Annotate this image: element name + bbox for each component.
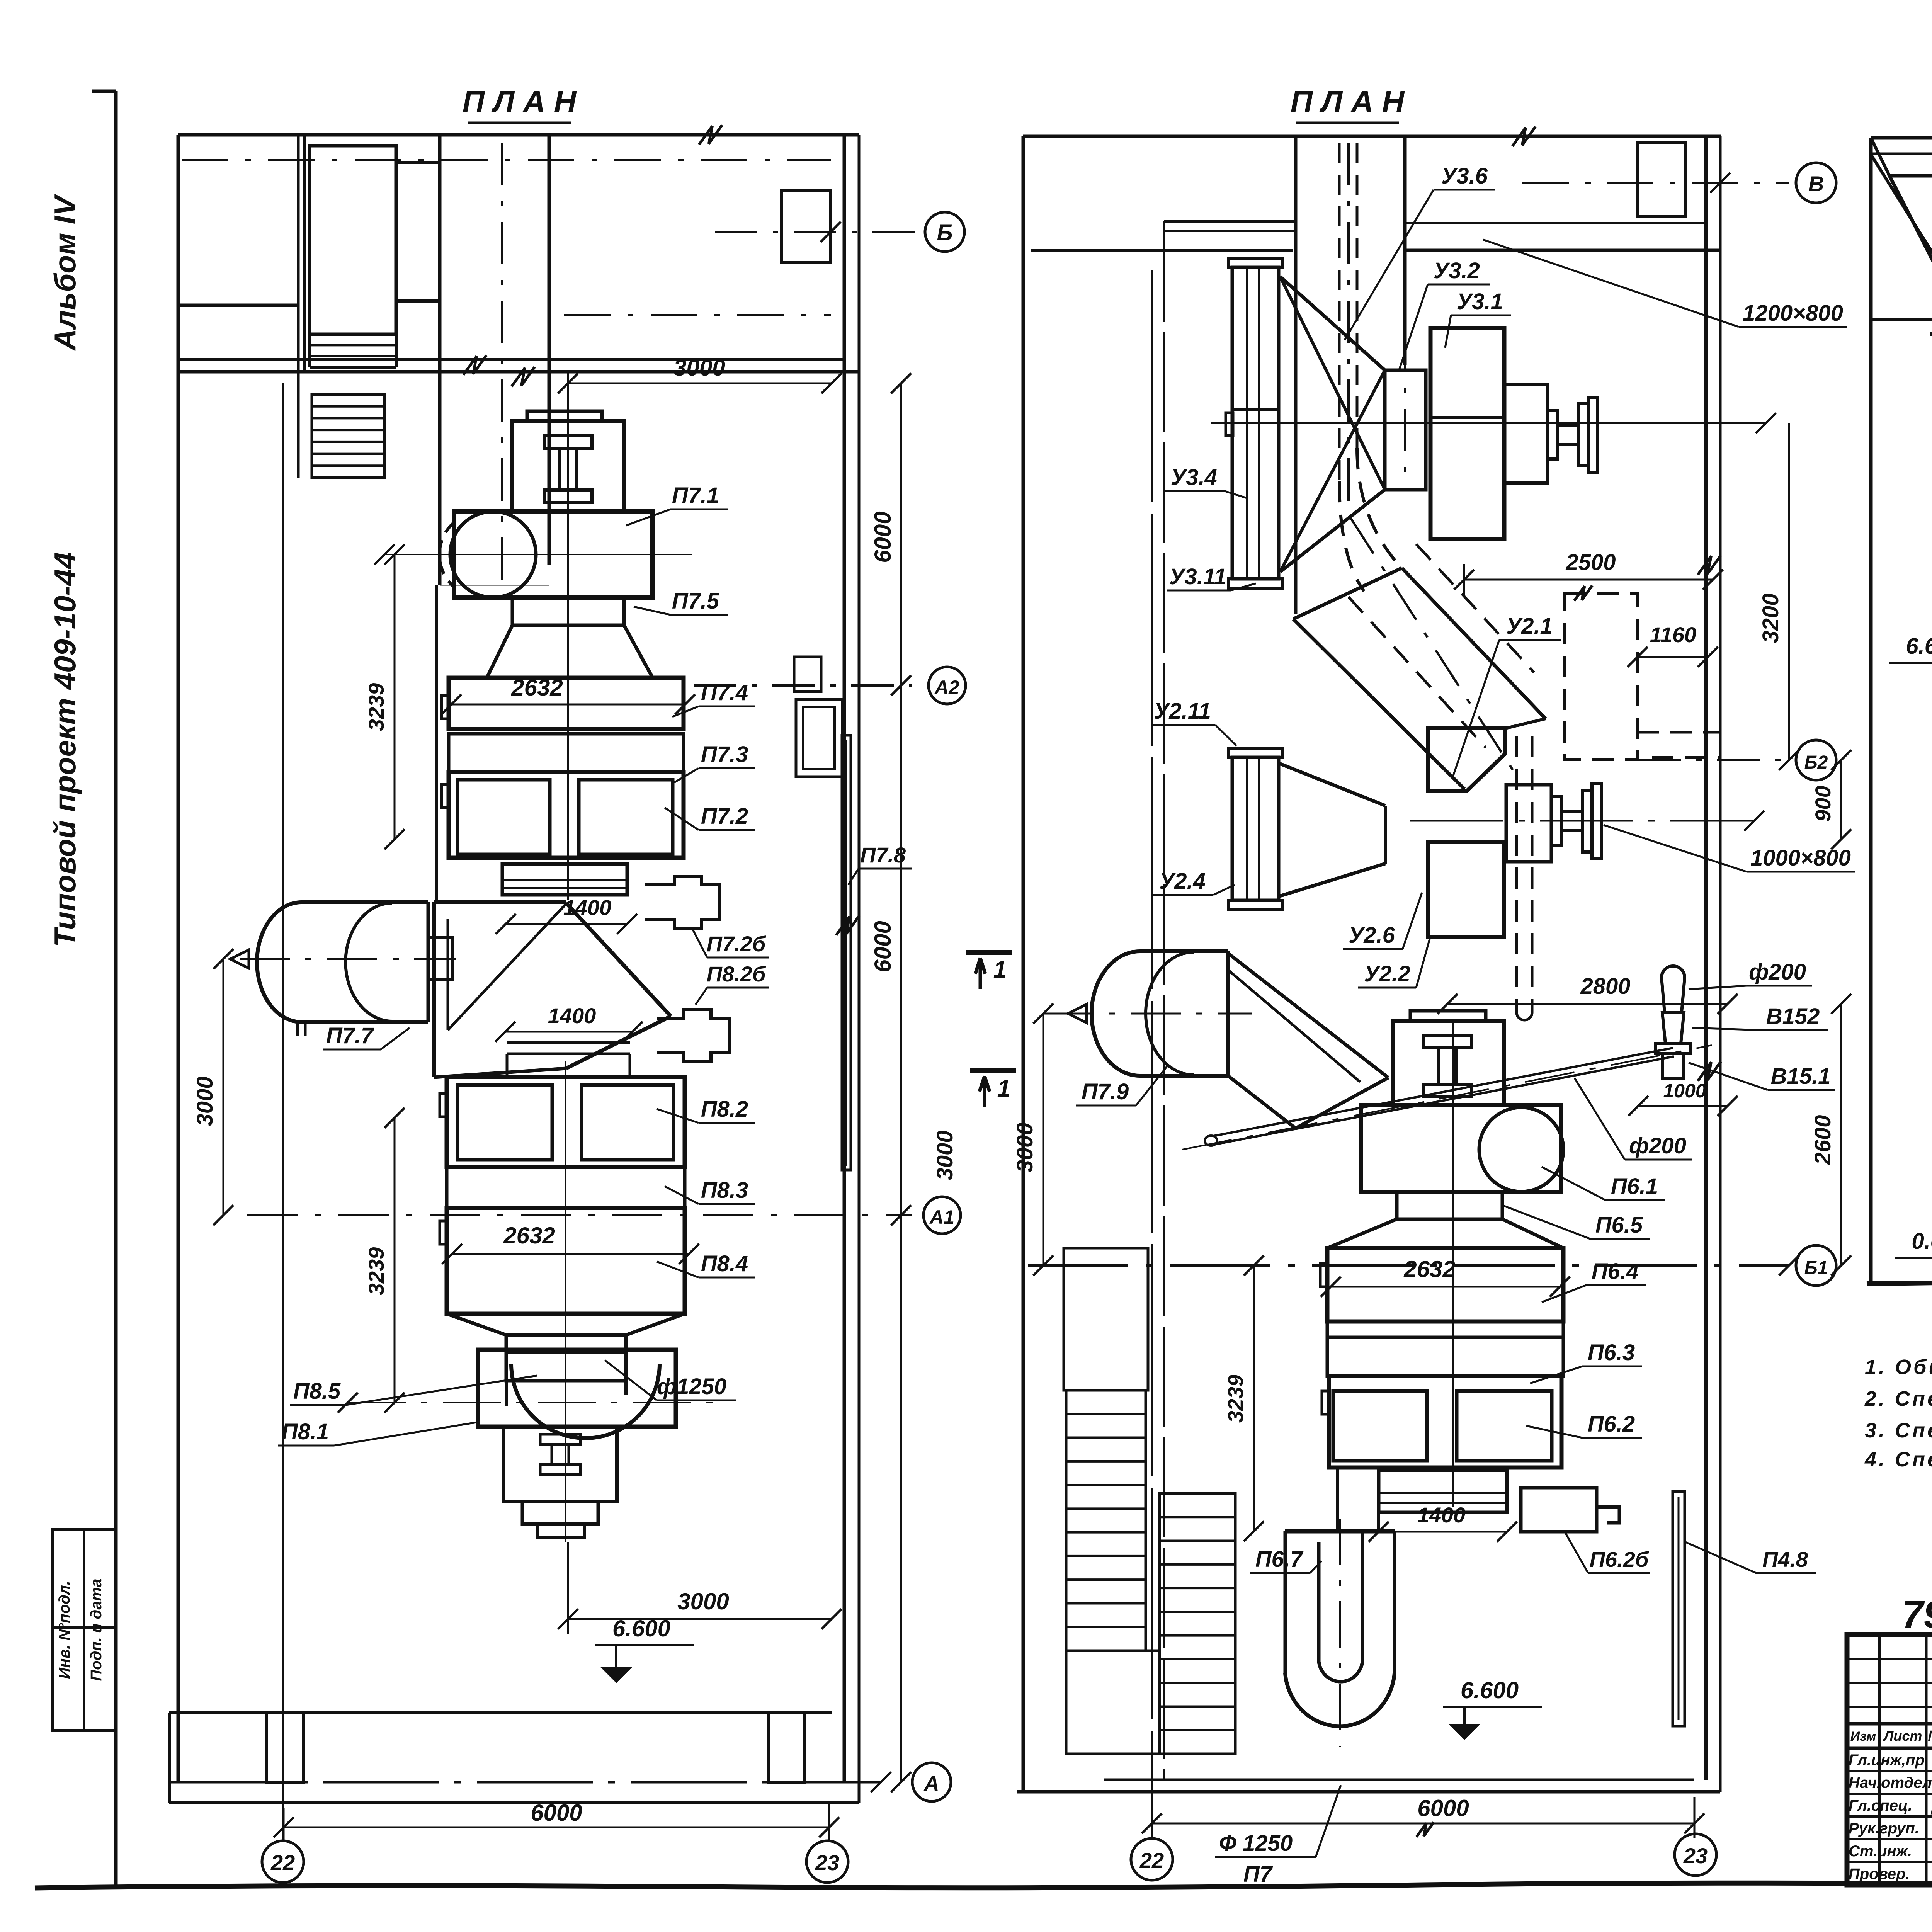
dim 3000 vertical right lower — [900, 1215, 902, 1782]
У2.4 grille caps — [1229, 748, 1282, 757]
svg-text:В15.1: В15.1 — [1771, 1064, 1831, 1089]
У3.4 grille body — [1232, 267, 1279, 579]
shaft verticals — [438, 135, 442, 585]
svg-text:П7.5: П7.5 — [672, 588, 719, 614]
svg-text:2500: 2500 — [1565, 550, 1616, 575]
dim 6000 vertical right (upper bay) — [900, 383, 902, 685]
П8 stack centerline — [565, 1061, 566, 1542]
svg-text:П8.3: П8.3 — [701, 1178, 748, 1203]
svg-text:2632: 2632 — [511, 675, 563, 701]
dashed return duct — [1515, 736, 1518, 1012]
П7.2 bottom neck with flange lines — [502, 864, 627, 895]
svg-text:22: 22 — [270, 1850, 295, 1875]
svg-text:1400: 1400 — [1417, 1503, 1466, 1527]
landing — [1066, 1651, 1160, 1754]
svg-text:Типовой проект 409-10-44: Типовой проект 409-10-44 — [48, 552, 82, 947]
grid line 22 left plan — [282, 383, 284, 1841]
svg-text:0.000: 0.000 — [1912, 1229, 1932, 1254]
section left wall — [1869, 138, 1873, 1284]
П6.7 drop from П6.2 — [1377, 1512, 1380, 1531]
svg-text:П6.3: П6.3 — [1588, 1340, 1635, 1365]
svg-text:3000: 3000 — [673, 355, 725, 381]
ground line — [1867, 1282, 1932, 1289]
svg-text:Дорфман: Дорфман — [1930, 1794, 1932, 1815]
svg-text:П7.4: П7.4 — [701, 680, 748, 705]
left plan horizontal double wall — [178, 358, 844, 361]
middle plan right wall pair — [1704, 136, 1708, 1780]
axis А line (wall bottom) — [169, 1781, 881, 1784]
У2 motor right — [1506, 785, 1551, 862]
svg-text:П8.5: П8.5 — [293, 1379, 341, 1404]
axis В — [1522, 182, 1789, 184]
svg-text:6000: 6000 — [870, 511, 896, 563]
svg-text:1200×800: 1200×800 — [1743, 301, 1843, 326]
dim 1000 — [1638, 1105, 1728, 1107]
shaft centerline dash-dot — [501, 143, 503, 591]
fan П7.1 scroll box — [454, 512, 653, 598]
svg-text:А1: А1 — [929, 1206, 954, 1228]
dim 6000 vertical right (А2-А1) — [900, 685, 902, 1215]
svg-text:23: 23 — [815, 1850, 839, 1875]
svg-text:П7: П7 — [1243, 1862, 1273, 1887]
bottom wall band left plan — [169, 1711, 832, 1714]
svg-text:3200: 3200 — [1758, 593, 1783, 643]
svg-text:3239: 3239 — [364, 683, 388, 731]
trapezoid below П8.4 — [447, 1314, 685, 1335]
svg-text:3. Спецификацию установок: 3. Спецификацию установок П7, П8, В15 см… — [1865, 1419, 1932, 1442]
roof truss lower chord — [1871, 318, 1932, 321]
dim 1400 middle — [1379, 1531, 1507, 1533]
svg-text:1000: 1000 — [1663, 1080, 1706, 1102]
svg-text:2632: 2632 — [503, 1223, 555, 1248]
stair block top — [310, 146, 396, 334]
П7.5 transition trapezoid — [487, 625, 653, 678]
svg-text:3000: 3000 — [932, 1130, 957, 1180]
П8.2 box with two cells — [447, 1077, 685, 1167]
П7.2 box with two cells — [449, 772, 684, 858]
svg-text:Б: Б — [937, 220, 952, 245]
svg-text:У2.11: У2.11 — [1154, 699, 1211, 724]
motor I-beam detail — [544, 436, 592, 448]
tank centerline + arrow — [240, 958, 456, 960]
svg-text:У3.11: У3.11 — [1169, 564, 1226, 589]
svg-text:Б2: Б2 — [1804, 752, 1828, 773]
svg-text:6.600: 6.600 — [612, 1616, 670, 1641]
dim 3000 top — [568, 383, 832, 384]
axis Б1 — [1028, 1264, 1789, 1267]
dim 2500 — [1464, 579, 1713, 581]
grid line 22 middle — [1151, 270, 1153, 1838]
left plan right wall pair — [843, 135, 846, 1782]
svg-text:900: 900 — [1811, 786, 1835, 821]
П7.4 box — [449, 678, 684, 729]
svg-text:У2.2: У2.2 — [1364, 961, 1410, 986]
left plan top wall — [178, 133, 859, 137]
svg-text:Лист: Лист — [1883, 1728, 1922, 1744]
left plan dash-dot axis top bay — [182, 159, 831, 161]
dash-dot axis in top bay lower — [564, 314, 831, 316]
svg-text:П7.9: П7.9 — [1082, 1079, 1129, 1104]
dim 6000 bottom middle — [1152, 1823, 1694, 1825]
section mark 1 upper — [966, 950, 1012, 955]
small rect on axis В — [1637, 143, 1685, 216]
svg-text:П Л А Н: П Л А Н — [1291, 84, 1405, 119]
dim 1400 diagonal area — [505, 1031, 633, 1033]
section top chord — [1871, 136, 1932, 140]
svg-text:1: 1 — [993, 956, 1007, 983]
tank П7.7 — [301, 902, 428, 1022]
svg-text:Изм: Изм — [1850, 1729, 1876, 1744]
motor I-beam detail П8.1 — [540, 1434, 580, 1444]
svg-text:У3.6: У3.6 — [1441, 163, 1488, 189]
svg-text:Ф 1250: Ф 1250 — [1219, 1831, 1293, 1856]
svg-text:6.600: 6.600 — [1906, 634, 1932, 659]
tank legs — [296, 1022, 299, 1036]
axis Б2 — [1638, 759, 1789, 761]
bottom wall middle plan — [1104, 1779, 1694, 1781]
svg-text:П4.8: П4.8 — [1762, 1547, 1808, 1571]
truss diagonals — [1871, 155, 1932, 317]
fan П8.1 scroll — [478, 1350, 676, 1427]
dim 2600 vertical — [1840, 1004, 1842, 1265]
П8.4 box — [447, 1208, 685, 1314]
dim 1160 — [1638, 656, 1708, 658]
thin pipe ф200 diagonal — [1213, 1048, 1673, 1136]
У2 machinery axis y=2124 — [1410, 820, 1754, 822]
left side tabs of boxes — [442, 696, 449, 719]
svg-text:А: А — [923, 1772, 939, 1795]
У3.4 grille caps — [1229, 258, 1282, 267]
shaft dashed duct lines — [1338, 143, 1341, 481]
svg-text:А2: А2 — [934, 677, 959, 698]
svg-text:N°документа: N°документа — [1928, 1728, 1932, 1744]
valve B152 — [1662, 966, 1685, 1012]
axis Б dash-dot — [715, 231, 925, 233]
svg-text:6000: 6000 — [870, 921, 896, 972]
svg-text:В152: В152 — [1766, 1004, 1820, 1029]
section mark 1 lower left — [970, 1068, 1016, 1073]
fan unit П7.1 motor flange — [527, 411, 602, 421]
П6.3 band — [1327, 1321, 1563, 1337]
П7.5 neck — [512, 598, 624, 625]
П6.2 bottom neck — [1379, 1470, 1507, 1512]
svg-text:П6.7: П6.7 — [1255, 1547, 1304, 1572]
svg-text:4. Спецификацию установок У: 4. Спецификацию установок У2, У3 . см. О… — [1864, 1448, 1932, 1471]
П7 stack centerline — [567, 398, 569, 900]
П6 motor flange — [1410, 1011, 1486, 1021]
fan П6.1 scroll box — [1361, 1105, 1561, 1192]
svg-text:П6.2: П6.2 — [1588, 1412, 1635, 1437]
svg-text:2600: 2600 — [1810, 1115, 1835, 1165]
svg-text:1400: 1400 — [548, 1003, 596, 1028]
svg-text:1000×800: 1000×800 — [1750, 845, 1851, 871]
svg-text:Альбом IV: Альбом IV — [48, 194, 82, 351]
axis А1 — [247, 1214, 912, 1216]
svg-text:П Л А Н: П Л А Н — [463, 84, 577, 119]
svg-text:У3.4: У3.4 — [1171, 465, 1217, 490]
П7.8 narrow duct in wall — [842, 735, 851, 1170]
grid circles 22 23 middle plan — [1131, 1838, 1173, 1880]
П4.8 narrow duct — [1673, 1492, 1685, 1726]
svg-text:П7.2б: П7.2б — [707, 932, 766, 956]
svg-text:7922/8: 7922/8 — [1902, 1593, 1932, 1636]
У2.4 grille body — [1232, 757, 1279, 900]
grille mid tab — [1226, 413, 1233, 435]
wall piers — [266, 1713, 303, 1782]
wall pair x=772 — [297, 135, 300, 372]
У3 axis thin — [1211, 422, 1766, 424]
svg-text:ф1250: ф1250 — [657, 1374, 726, 1399]
svg-text:Подп. и дата: Подп. и дата — [88, 1579, 105, 1681]
svg-text:2632: 2632 — [1403, 1256, 1455, 1282]
svg-text:П6.5: П6.5 — [1595, 1213, 1643, 1238]
dim 6000 bottom — [284, 1827, 829, 1828]
П7.9 centerline + arrow — [1043, 1013, 1252, 1015]
П7.3 band — [449, 734, 684, 772]
dim 3200 vertical — [1788, 423, 1790, 760]
axis А2 — [694, 684, 912, 687]
small rect on axis Б — [782, 191, 830, 263]
svg-text:П8.2б: П8.2б — [707, 962, 766, 986]
svg-text:6000: 6000 — [531, 1800, 582, 1826]
П6 stack centerline — [1452, 1020, 1454, 1507]
svg-text:Ст.инж.: Ст.инж. — [1849, 1843, 1912, 1860]
svg-text:Гл.спец.: Гл.спец. — [1849, 1797, 1912, 1814]
middle plan top wall — [1023, 135, 1721, 138]
svg-text:ф200: ф200 — [1749, 959, 1806, 985]
vertical duct casing around П7 lower — [435, 585, 438, 904]
fan axis thin line — [384, 554, 692, 555]
title block outer — [1847, 1634, 1932, 1885]
svg-text:1160: 1160 — [1650, 622, 1696, 647]
svg-text:Нач.отдела: Нач.отдела — [1849, 1774, 1932, 1791]
П8.1 motor box — [503, 1427, 617, 1502]
У2.1 dashed riser — [1565, 594, 1638, 759]
sheet frame bottom border — [35, 1883, 1932, 1888]
У2.1 junction box — [1428, 728, 1505, 791]
П6.2 box with cells — [1329, 1376, 1561, 1468]
svg-text:1: 1 — [997, 1075, 1010, 1102]
svg-text:3239: 3239 — [1223, 1375, 1248, 1423]
middle plan shaft verticals — [1294, 136, 1298, 614]
fan У3.1 — [1430, 328, 1504, 539]
П7.2б zigzag duct piece — [645, 876, 719, 928]
У2 vertical duct under У2.1 — [1428, 842, 1504, 937]
У2.4 funnel — [1279, 763, 1385, 806]
grid circle А — [912, 1763, 951, 1801]
middle plan left wall — [1022, 136, 1025, 1792]
svg-text:ф200: ф200 — [1629, 1133, 1686, 1158]
top hopper in section — [1889, 176, 1932, 270]
centerline U-duct — [1339, 1519, 1341, 1747]
svg-text:П7.8: П7.8 — [860, 843, 906, 867]
У3.4 funnel — [1280, 277, 1385, 370]
fan П8.1 centerline — [348, 1402, 715, 1403]
svg-text:У2.6: У2.6 — [1349, 923, 1395, 948]
dim 3000 vertical left — [223, 959, 224, 1215]
svg-text:3000: 3000 — [1012, 1122, 1037, 1172]
dim 900 vertical — [1840, 760, 1842, 839]
dim 2800 — [1447, 1003, 1728, 1005]
lower wall outer line — [169, 1801, 859, 1804]
svg-text:П7.2: П7.2 — [701, 804, 748, 829]
svg-text:П8.1: П8.1 — [282, 1419, 329, 1444]
П6.2б zigzag piece — [1521, 1488, 1619, 1532]
elbow dash-dot centerline — [1350, 518, 1515, 773]
steps small rects right of П7.4 — [794, 657, 821, 692]
fan П6.1 circle — [1479, 1107, 1563, 1192]
svg-text:У3.1: У3.1 — [1457, 289, 1503, 314]
hopper funnel to duct — [1228, 953, 1388, 1128]
П8.5 neck — [506, 1335, 626, 1381]
svg-text:У3.2: У3.2 — [1434, 258, 1480, 283]
П8.2б zigzag piece — [657, 1010, 729, 1061]
П6.5 neck — [1397, 1192, 1502, 1219]
У3 duct dash-dot centerline — [1404, 251, 1406, 491]
svg-text:В: В — [1808, 172, 1824, 196]
П6.5 trapezoid — [1327, 1219, 1563, 1248]
sheet frame left border — [114, 91, 118, 1886]
dim 1400 (П7) — [506, 923, 627, 925]
diagonal duct П8.2б transition diamond — [432, 902, 436, 1077]
title block left signature table — [1878, 1634, 1881, 1885]
dashed duct to wall — [1638, 731, 1720, 734]
svg-text:6.600: 6.600 — [1461, 1677, 1519, 1703]
svg-text:П8.2: П8.2 — [701, 1097, 748, 1122]
svg-text:Рук.груп.: Рук.груп. — [1849, 1820, 1919, 1837]
П6.4 box — [1327, 1248, 1563, 1321]
svg-text:Гл.инж,пр.: Гл.инж,пр. — [1849, 1752, 1929, 1769]
dim 3239 vertical middle — [1253, 1265, 1255, 1531]
U-duct П6.7 — [1285, 1529, 1395, 1534]
svg-text:П8.4: П8.4 — [701, 1251, 748, 1276]
svg-text:У2.4: У2.4 — [1159, 869, 1206, 894]
left margin box Инв/Подп — [52, 1529, 116, 1730]
dim 3000 vertical middle — [1043, 1014, 1044, 1265]
tank П7.9 (vertical cylinder) — [1140, 951, 1228, 1076]
svg-text:У2.1: У2.1 — [1506, 614, 1553, 639]
П8.2 inlet flanges — [507, 1041, 630, 1044]
stairs middle plan flight2 — [1160, 1493, 1235, 1754]
П8.3 band — [447, 1167, 685, 1208]
svg-text:1. Общие примечания см.: 1. Общие примечания см. ОВ-17. — [1865, 1355, 1932, 1379]
svg-text:3000: 3000 — [192, 1076, 218, 1126]
dim 3239 vertical (П7 group) — [394, 554, 396, 839]
dim 3239 vertical (П8 group) — [394, 1118, 396, 1403]
connection tank to duct — [428, 937, 453, 980]
svg-text:3000: 3000 — [677, 1588, 729, 1614]
grid circle Б — [925, 212, 964, 252]
svg-text:6000: 6000 — [1417, 1795, 1469, 1821]
left plan left wall — [177, 135, 180, 372]
niche lines right of stair block — [396, 161, 440, 164]
У3 motor right — [1504, 384, 1548, 483]
svg-text:23: 23 — [1683, 1844, 1708, 1868]
svg-text:2. Спецификацию установки: 2. Спецификацию установки П6 см. ОВ-22. — [1864, 1387, 1932, 1410]
middle plan inner wall x=3008 — [1163, 221, 1165, 1780]
dim 3000 bottom — [568, 1618, 832, 1620]
svg-text:22: 22 — [1139, 1848, 1164, 1872]
svg-text:Инв. N°подл.: Инв. N°подл. — [56, 1581, 73, 1679]
svg-text:П7.3: П7.3 — [701, 742, 748, 767]
svg-text:П7.1: П7.1 — [672, 483, 719, 508]
shaft dash-dot centerline — [1347, 143, 1350, 514]
interior wall line y=790 top-left room — [178, 304, 298, 307]
svg-text:2800: 2800 — [1580, 974, 1630, 999]
stair enclosure above — [1064, 1248, 1148, 1390]
stairs middle plan flight1 — [1066, 1390, 1146, 1651]
svg-text:3239: 3239 — [364, 1247, 388, 1296]
svg-text:П6.1: П6.1 — [1611, 1174, 1658, 1199]
elbow duct band — [1293, 568, 1402, 619]
fan П7.1 inlet circle — [450, 512, 536, 597]
grid circles 22 23 left plan — [262, 1841, 304, 1883]
fan unit П7.1 motor box — [512, 421, 624, 512]
П6.1 motor box — [1393, 1021, 1504, 1105]
svg-text:Б1: Б1 — [1804, 1258, 1828, 1278]
У3 duct box — [1385, 370, 1426, 490]
stair flight below — [312, 395, 384, 478]
svg-text:П6.4: П6.4 — [1592, 1259, 1639, 1284]
svg-text:П7.7: П7.7 — [326, 1023, 374, 1048]
svg-text:П6.2б: П6.2б — [1590, 1547, 1649, 1571]
middle plan double wall y=578/615 — [1164, 220, 1294, 223]
svg-text:Провер.: Провер. — [1849, 1866, 1910, 1883]
